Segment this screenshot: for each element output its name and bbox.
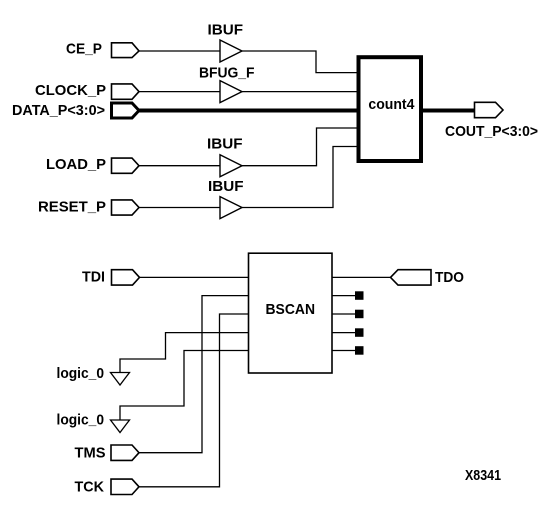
wire BFUG_F output to count4 clock input bbox=[242, 91, 357, 93]
svg-text:TDI: TDI bbox=[82, 270, 105, 286]
svg-text:CE_P: CE_P bbox=[66, 42, 102, 58]
wire IBUF output to count4 load input bbox=[242, 128, 357, 166]
wire LOAD_P pin to IBUF bbox=[139, 165, 220, 167]
svg-text:DATA_P<3:0>: DATA_P<3:0> bbox=[12, 103, 105, 119]
stub wire BSCAN out 4 bbox=[332, 350, 355, 352]
input pin DATA_P<3:0> (bus) bbox=[112, 103, 140, 118]
bus wire count4 output to COUT pin bbox=[423, 109, 475, 113]
stub wire BSCAN out 2 bbox=[332, 313, 355, 315]
wire TCK to BSCAN bbox=[140, 314, 249, 487]
ground symbol logic_0 (2) bbox=[111, 420, 130, 433]
wire RESET_P pin to IBUF bbox=[139, 207, 220, 209]
input pin TCK bbox=[111, 479, 139, 494]
stub wire BSCAN out 1 bbox=[332, 295, 355, 297]
svg-text:BFUG_F: BFUG_F bbox=[199, 66, 255, 82]
wire IBUF output to count4 reset input bbox=[242, 147, 357, 208]
wire CE_P pin to IBUF bbox=[139, 50, 220, 52]
svg-text:TDO: TDO bbox=[435, 270, 464, 286]
svg-text:RESET_P: RESET_P bbox=[38, 200, 106, 216]
svg-text:CLOCK_P: CLOCK_P bbox=[35, 83, 106, 99]
block BSCAN U2 bbox=[249, 253, 333, 373]
svg-text:TMS: TMS bbox=[75, 446, 106, 462]
svg-text:logic_0: logic_0 bbox=[57, 366, 105, 382]
svg-text:COUT_P<3:0>: COUT_P<3:0> bbox=[445, 124, 538, 140]
svg-text:count4: count4 bbox=[368, 96, 415, 113]
ground symbol logic_0 (1) bbox=[111, 373, 130, 386]
output pin TDO (points left) bbox=[391, 270, 432, 285]
buffer IBUF (CE_P) bbox=[220, 40, 242, 62]
wire CLOCK_P pin to BFUG_F bbox=[139, 91, 220, 93]
terminal square 3 bbox=[355, 328, 364, 337]
output pin COUT_P<3:0> bbox=[475, 102, 504, 117]
svg-text:TCK: TCK bbox=[75, 480, 105, 496]
stub wire BSCAN out 3 bbox=[332, 332, 355, 334]
svg-text:IBUF: IBUF bbox=[208, 179, 244, 195]
svg-text:logic_0: logic_0 bbox=[57, 413, 105, 429]
bus wire DATA_P to count4 bbox=[139, 109, 357, 113]
terminal square 2 bbox=[355, 310, 364, 319]
block count4 U1 bbox=[359, 57, 422, 161]
wire TMS to BSCAN bbox=[140, 296, 249, 453]
svg-text:BSCAN: BSCAN bbox=[266, 301, 316, 318]
terminal square 4 bbox=[355, 346, 364, 355]
terminal square 1 bbox=[355, 291, 364, 300]
input pin TDI bbox=[112, 270, 140, 285]
buffer IBUF (RESET_P) bbox=[220, 197, 242, 219]
input pin LOAD_P bbox=[112, 158, 140, 173]
wire logic_0 (2) to BSCAN bbox=[120, 351, 249, 421]
buffer IBUF (LOAD_P) bbox=[220, 155, 242, 177]
input pin CE_P bbox=[112, 43, 140, 58]
svg-text:IBUF: IBUF bbox=[207, 137, 243, 153]
wire TDI pin to BSCAN bbox=[140, 276, 249, 278]
svg-text:LOAD_P: LOAD_P bbox=[46, 157, 106, 173]
input pin CLOCK_P bbox=[112, 84, 140, 99]
wire BSCAN to TDO pin bbox=[332, 276, 390, 278]
svg-text:IBUF: IBUF bbox=[208, 23, 244, 39]
input pin RESET_P bbox=[112, 200, 140, 215]
svg-text:X8341: X8341 bbox=[465, 468, 501, 484]
wire logic_0 (1) to BSCAN bbox=[120, 333, 249, 373]
input pin TMS bbox=[111, 445, 139, 460]
wire IBUF output to count4 CE input bbox=[242, 51, 357, 73]
buffer BFUG_F (CLOCK_P) bbox=[220, 81, 242, 103]
